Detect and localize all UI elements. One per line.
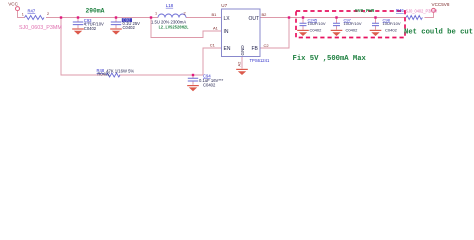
svg-text:C0402: C0402: [346, 28, 359, 33]
svg-text:10UF/10V: 10UF/10V: [383, 21, 401, 26]
svg-text:R46: R46: [396, 8, 404, 13]
svg-text:FB: FB: [252, 46, 259, 52]
svg-text:A1: A1: [213, 25, 219, 30]
svg-text:C0402: C0402: [84, 26, 97, 31]
svg-text:U7: U7: [221, 3, 227, 8]
svg-text:VCC: VCC: [8, 2, 18, 7]
svg-text:L2_LVS2520H2L: L2_LVS2520H2L: [159, 25, 189, 30]
svg-text:C0402: C0402: [310, 28, 323, 33]
svg-text:R47: R47: [28, 8, 36, 13]
svg-text:1: 1: [22, 12, 24, 16]
svg-text:VCC5V8: VCC5V8: [432, 2, 450, 7]
svg-text:C0402: C0402: [385, 28, 398, 33]
svg-text:C1: C1: [210, 42, 216, 47]
svg-text:2: 2: [47, 12, 49, 16]
svg-text:IN: IN: [224, 29, 229, 35]
svg-text:Net could be cut: Net could be cut: [404, 29, 473, 37]
svg-text:5V0_PWR: 5V0_PWR: [355, 8, 375, 14]
svg-text:R0402: R0402: [97, 72, 110, 77]
svg-text:B1: B1: [212, 12, 218, 17]
svg-text:290mA: 290mA: [86, 8, 105, 15]
svg-text:SJ0_0603_P3MM: SJ0_0603_P3MM: [19, 25, 62, 31]
svg-text:C0402: C0402: [203, 82, 216, 87]
svg-text:1.5U 20% 2300mA: 1.5U 20% 2300mA: [151, 19, 186, 24]
svg-text:1: 1: [155, 12, 157, 16]
svg-text:2: 2: [184, 12, 186, 16]
svg-text:OUT: OUT: [249, 16, 260, 22]
svg-text:GND: GND: [240, 45, 245, 56]
svg-text:EN: EN: [224, 46, 231, 52]
svg-text:10UF/10V: 10UF/10V: [344, 21, 362, 26]
svg-text:L18: L18: [166, 3, 174, 8]
svg-text:SJ0_0402_P3MM: SJ0_0402_P3MM: [406, 9, 438, 14]
svg-text:Fix 5V ,500mA Max: Fix 5V ,500mA Max: [293, 55, 367, 63]
svg-text:10UF/10V: 10UF/10V: [308, 21, 326, 26]
svg-text:LX: LX: [224, 16, 231, 22]
svg-text:TPS61241: TPS61241: [250, 58, 270, 63]
svg-text:47K 1/16W 5%: 47K 1/16W 5%: [106, 68, 134, 73]
svg-text:C2: C2: [264, 43, 270, 48]
svg-text:B2: B2: [262, 12, 268, 17]
svg-text:C0402: C0402: [123, 25, 136, 30]
svg-text:A2: A2: [237, 61, 242, 67]
